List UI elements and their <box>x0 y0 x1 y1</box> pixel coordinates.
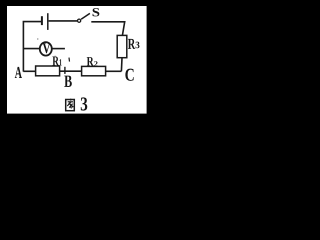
label R2 - R <box>87 57 94 66</box>
wire: C corner to R2 <box>106 70 122 72</box>
label R3 - subscript 3 <box>136 42 140 49</box>
white panel <box>7 6 147 114</box>
wire: switch to top-right corner, down to R3 <box>91 22 124 36</box>
node B junction tick <box>64 67 66 74</box>
wire: voltmeter branch left <box>23 48 39 50</box>
label B <box>64 76 72 87</box>
resistor R3 box <box>117 35 127 57</box>
scan speck near circle top <box>37 38 38 39</box>
label A <box>15 67 22 78</box>
wire: left vertical + top-left segment <box>23 22 41 72</box>
resistor R2 box <box>82 66 106 75</box>
wire: battery to switch <box>49 20 77 22</box>
wire: R3 down to corner C <box>120 58 123 72</box>
voltmeter U1 circle <box>40 42 52 55</box>
label R1 - subscript 1 <box>59 59 61 65</box>
resistor R1 box <box>36 66 60 76</box>
caption glyph 图 (drawn) <box>66 99 75 111</box>
wire: voltmeter branch right <box>52 48 65 50</box>
voltmeter V letter <box>43 44 51 54</box>
label R3 - R <box>128 39 135 49</box>
label R2 - subscript 2 <box>94 61 97 66</box>
battery cell: long plate <box>47 13 49 30</box>
stray tick after R1 label <box>68 58 71 62</box>
caption digit 3 <box>81 97 87 110</box>
label R1 - R <box>52 56 59 65</box>
battery cell: short plate <box>41 16 43 25</box>
wire: R1 to node A corner <box>23 70 35 72</box>
wire: R2 to R1 through node B <box>60 70 82 72</box>
label S <box>93 8 100 16</box>
scan speck near circle bottom-right <box>54 56 56 57</box>
label C <box>125 69 133 81</box>
switch S: lever <box>81 13 90 19</box>
switch S: pivot circle <box>78 19 81 22</box>
black surround <box>0 0 160 124</box>
